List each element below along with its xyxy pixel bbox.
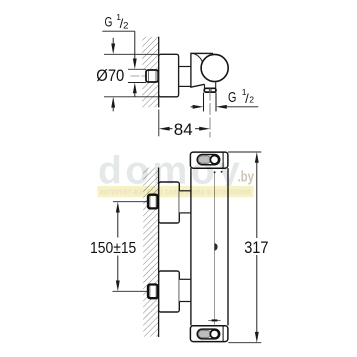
svg-text:150±15: 150±15 <box>90 240 136 257</box>
svg-text:2: 2 <box>123 20 128 31</box>
svg-text:2: 2 <box>249 94 254 104</box>
svg-text:Ø70: Ø70 <box>96 67 124 85</box>
svg-text:domoy: domoy <box>98 149 243 192</box>
svg-text:G: G <box>228 90 236 106</box>
svg-text:.by: .by <box>238 169 255 186</box>
svg-text:ИНТЕРНЕТ-МАГАЗИН САНТЕХНИКИ И: ИНТЕРНЕТ-МАГАЗИН САНТЕХНИКИ И ОТОПЛЕНИЯ <box>100 190 251 197</box>
svg-text:317: 317 <box>244 239 268 257</box>
svg-text:84: 84 <box>174 121 193 139</box>
svg-text:G: G <box>105 15 113 30</box>
